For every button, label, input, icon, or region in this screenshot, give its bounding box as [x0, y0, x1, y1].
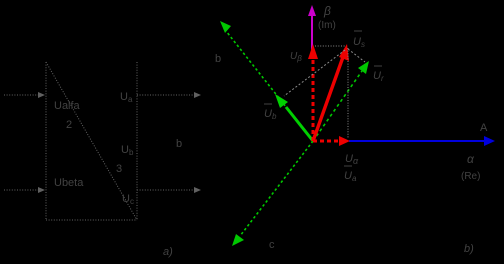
arrowhead input 1: [38, 92, 45, 98]
block bottom edge: [46, 219, 137, 221]
block right edge: [136, 62, 138, 220]
axis beta / Im (magenta, up): [308, 5, 316, 52]
construction line Us tip to Ub tip: [284, 50, 345, 96]
svg-text:b): b): [464, 243, 474, 255]
svg-text:b: b: [215, 53, 221, 65]
vector Ur (green, up-right): [313, 61, 369, 141]
vector Ubeta (red dashed, up): [308, 44, 318, 141]
wire input Ualfa: [4, 94, 39, 96]
svg-text:2: 2: [66, 119, 72, 131]
svg-text:Ubeta: Ubeta: [54, 177, 84, 189]
svg-text:(Im): (Im): [318, 20, 336, 31]
svg-text:α: α: [467, 152, 475, 166]
label Ur vector: [374, 65, 382, 67]
svg-text:A: A: [480, 122, 488, 134]
axis b (green, up-left): [220, 21, 313, 141]
arrowhead output 1: [194, 92, 201, 98]
axis c (green, down-left): [232, 141, 313, 246]
svg-text:(Re): (Re): [461, 171, 480, 182]
vector Us (red solid, up-right): [313, 44, 349, 141]
vector Ub (green, thick, along b axis): [275, 94, 313, 141]
wire input Ubeta: [4, 189, 39, 191]
label Ub vector: [264, 103, 272, 105]
label Ua (under Ualpha): [344, 165, 352, 167]
svg-text:Ualfa: Ualfa: [54, 100, 81, 112]
axis A / alpha (blue, right): [349, 136, 495, 146]
block left edge: [45, 62, 47, 220]
wire output Ua: [137, 94, 195, 96]
svg-text:a): a): [163, 246, 173, 258]
svg-text:c: c: [269, 239, 275, 251]
block diagonal: [46, 62, 137, 220]
svg-text:b: b: [176, 138, 182, 150]
arrowhead output 2: [194, 187, 201, 193]
construction line Ubeta tip to Us tip: [315, 45, 345, 47]
wire output Uc: [137, 189, 195, 191]
construction line Us tip to Ur tip: [348, 49, 365, 62]
arrowhead input 2: [38, 187, 45, 193]
svg-text:3: 3: [116, 163, 122, 175]
svg-text:β: β: [323, 4, 331, 18]
construction line Us tip to alpha axis: [347, 48, 349, 139]
label Us: [354, 30, 362, 32]
vector Ualpha (red dashed, right): [313, 136, 350, 146]
